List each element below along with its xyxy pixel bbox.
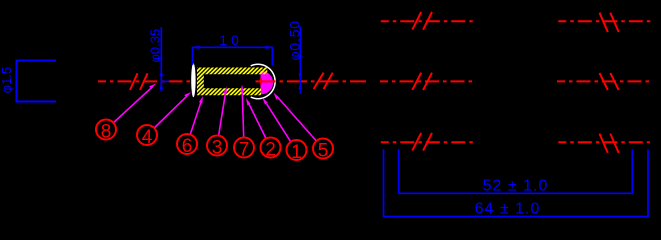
- leader 6: [190, 96, 203, 135]
- svg-text:7: 7: [239, 140, 250, 161]
- svg-text:52 ± 1.0: 52 ± 1.0: [483, 178, 549, 195]
- ball lens (magenta half-disc): [262, 71, 274, 94]
- leader 1: [263, 98, 291, 142]
- dimension 64 bracket: [384, 149, 649, 216]
- svg-text:φ0.50: φ0.50: [287, 20, 303, 60]
- centerline row2 seg C: [380, 80, 475, 82]
- balloon 7: [234, 138, 254, 161]
- leader 2: [246, 98, 266, 139]
- break symbol row3 left: [412, 133, 432, 151]
- ferrule end cap (white crescent): [191, 63, 195, 97]
- centerline row2 seg D: [557, 80, 651, 82]
- dimension 52 bracket: [399, 149, 633, 193]
- centerline row1 seg A: [381, 20, 475, 22]
- break symbol row2 far right: [600, 73, 619, 90]
- centerline row3 seg A: [381, 141, 476, 143]
- connector body (left blue tube outline): [17, 61, 57, 102]
- svg-text:10: 10: [219, 32, 243, 48]
- svg-text:1: 1: [291, 142, 302, 163]
- hatched sleeve (yellow section lines, clipped to bands): [160, 60, 311, 100]
- leader 4: [154, 92, 191, 128]
- balloon 5: [313, 139, 333, 162]
- centerline row1 seg B: [558, 20, 651, 22]
- svg-text:6: 6: [182, 136, 193, 157]
- svg-text:5: 5: [318, 141, 329, 162]
- break symbol row1 right: [600, 13, 619, 32]
- balloon 1: [287, 140, 307, 163]
- leader 3: [219, 87, 227, 136]
- balloon 2: [261, 138, 281, 161]
- break symbol row2 right-mid: [412, 73, 432, 90]
- leader 5: [274, 93, 317, 142]
- leader 7: [240, 85, 244, 138]
- dia 0.50 dimension line: [299, 27, 301, 94]
- balloon 6: [177, 134, 197, 157]
- svg-text:4: 4: [142, 127, 153, 148]
- svg-text:φ1.5: φ1.5: [0, 67, 14, 94]
- centerline row2 seg A (bare fiber): [98, 80, 191, 82]
- dia 0.35 dimension line: [161, 27, 169, 92]
- svg-text:64 ± 1.0: 64 ± 1.0: [475, 201, 541, 218]
- break symbol row3 right: [600, 134, 619, 153]
- break symbol row2 mid: [314, 73, 333, 89]
- ball center tick: [260, 78, 262, 84]
- leader 8: [114, 84, 157, 123]
- centerline row3 seg B: [558, 141, 650, 143]
- svg-text:φ0.35: φ0.35: [148, 29, 163, 63]
- svg-text:3: 3: [212, 138, 223, 159]
- balloon 4: [137, 125, 157, 148]
- centerline row2 seg B (over ball): [256, 80, 367, 82]
- dimension 10: [193, 47, 273, 66]
- svg-text:2: 2: [265, 140, 276, 161]
- balloon 8: [96, 120, 116, 143]
- dia 0.35 arrows: [160, 74, 164, 90]
- svg-text:8: 8: [101, 122, 112, 143]
- balloon 3: [207, 136, 227, 159]
- ball lens outline (white arc): [251, 64, 275, 98]
- break symbol row2 left: [130, 73, 148, 90]
- break symbol row1 left: [412, 12, 432, 30]
